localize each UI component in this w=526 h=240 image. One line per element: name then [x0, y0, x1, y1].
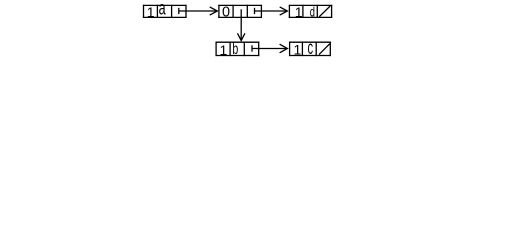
wire arrow N2 down to N4	[238, 9, 245, 40]
svg-text:1: 1	[294, 41, 302, 57]
wire arrow N1 next to N2	[179, 7, 218, 15]
svg-text:0: 0	[222, 5, 230, 21]
null slash in N3 pointer cell	[319, 6, 330, 17]
svg-text:c: c	[308, 38, 314, 59]
node N5 box (tag 1 | data c | null)	[289, 42, 331, 57]
wire arrow N4 next to N5	[252, 44, 287, 53]
svg-text:1: 1	[295, 4, 303, 20]
svg-text:1: 1	[147, 4, 155, 20]
svg-text:1: 1	[220, 42, 228, 58]
wire arrow N2 next to N3	[255, 7, 288, 15]
svg-text:d: d	[310, 4, 315, 20]
svg-text:a: a	[159, 0, 166, 20]
node N2 box (tag 0 | down ptr | next ptr)	[218, 5, 262, 18]
null slash in N5 pointer cell	[319, 44, 330, 55]
node N4 box (tag 1 | data b | next ptr)	[216, 42, 260, 57]
svg-text:b: b	[232, 41, 238, 58]
node N3 box (tag 1 | data d | null)	[289, 5, 332, 18]
node N1 box (tag 1 | data a | next ptr)	[143, 5, 187, 18]
